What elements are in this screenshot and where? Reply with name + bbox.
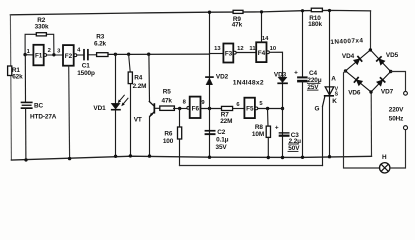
node B <box>127 53 130 56</box>
resistor R7 <box>220 106 244 125</box>
node: C3 ground <box>281 156 284 159</box>
resistor R8 <box>252 109 271 158</box>
svg-text:F6: F6 <box>192 106 200 113</box>
capacitor C4 <box>294 11 322 158</box>
svg-text:H: H <box>382 154 387 161</box>
node: piezo ground <box>24 158 27 161</box>
transistor VT <box>134 54 160 156</box>
node: thyristor cathode ground <box>328 155 331 158</box>
resistor R5 <box>160 88 187 110</box>
wire: F2 pin 7 to ground <box>68 66 71 159</box>
wire: lamp to mains terminal <box>390 130 406 168</box>
svg-text:22M: 22M <box>220 118 232 125</box>
svg-text:1N4I48x2: 1N4I48x2 <box>233 80 264 87</box>
svg-text:F3: F3 <box>225 51 233 58</box>
svg-text:35V: 35V <box>216 144 228 151</box>
wire: bottom ground rail <box>11 156 371 160</box>
diode VD7 <box>377 78 385 86</box>
svg-text:G: G <box>315 105 320 112</box>
svg-text:R6: R6 <box>164 130 173 137</box>
svg-text:220V: 220V <box>389 106 404 113</box>
svg-text:R5: R5 <box>163 88 172 95</box>
node: pin 13 rail junction <box>208 11 211 14</box>
diode VD6 <box>354 78 362 86</box>
diode VD5 <box>377 57 385 65</box>
inverter F4 <box>256 42 269 62</box>
terminal: mains upper <box>404 91 408 95</box>
wire: F4 pin 14 to rail <box>261 12 263 42</box>
wire: bridge bottom to ground rail <box>370 92 372 156</box>
diode VD3 <box>274 71 287 83</box>
svg-text:F4: F4 <box>258 50 266 57</box>
wire: F1 out to F2 in <box>47 54 63 56</box>
svg-text:47k: 47k <box>162 98 173 105</box>
svg-text:S: S <box>335 92 339 98</box>
node: bridge right vertex <box>389 70 392 73</box>
inverter F2 <box>63 45 77 66</box>
inverter F1 <box>33 45 46 66</box>
inverter F6 <box>187 97 201 118</box>
svg-text:14: 14 <box>262 36 269 42</box>
svg-text:VD1: VD1 <box>93 105 106 112</box>
terminal: mains lower <box>404 126 408 130</box>
inverter F3 <box>223 44 236 63</box>
node: C4 rail junction <box>301 9 304 12</box>
node: VT emitter ground <box>148 154 151 157</box>
svg-text:10: 10 <box>270 46 276 52</box>
wire: F6 pin 9 to middle column <box>201 108 222 110</box>
svg-text:VD2: VD2 <box>216 74 229 81</box>
node: middle column top <box>208 11 211 14</box>
svg-text:10M: 10M <box>252 131 264 138</box>
svg-text:VD7: VD7 <box>381 88 394 95</box>
wire: mains terminal to bridge right vertex <box>391 72 406 92</box>
node A <box>114 53 117 56</box>
svg-text:R8: R8 <box>255 124 264 131</box>
wire: top rail <box>10 10 370 14</box>
resistor R10 <box>308 8 322 28</box>
svg-text:R4: R4 <box>134 74 143 81</box>
wire: pin 1 lead <box>25 54 33 56</box>
svg-text:47k: 47k <box>232 21 243 28</box>
svg-text:C2: C2 <box>217 129 226 136</box>
node: bridge bottom vertex <box>369 90 372 93</box>
node: pin 14 rail junction <box>260 10 263 13</box>
node: C4 ground <box>301 156 304 159</box>
wire: gate rail <box>180 165 323 167</box>
rectifier bridge VD4-VD7 <box>330 37 398 96</box>
svg-text:VD5: VD5 <box>386 52 399 59</box>
svg-text:11: 11 <box>249 46 256 52</box>
wire: middle column <box>209 12 211 157</box>
svg-text:100: 100 <box>163 138 174 145</box>
node C <box>147 53 150 56</box>
svg-text:A: A <box>331 76 336 83</box>
node: R8 junction <box>266 107 269 110</box>
diode VD4 <box>354 57 362 65</box>
inverter F5 <box>244 98 257 118</box>
wire: bridge left vertex to lamp <box>344 71 380 168</box>
wire: F5 out to VD3 column <box>258 108 283 110</box>
svg-text:330k: 330k <box>35 23 49 30</box>
svg-text:62k: 62k <box>12 73 23 80</box>
node: R4 ground <box>129 154 132 157</box>
node: VD3 row3 junction <box>281 107 284 110</box>
svg-text:13: 13 <box>214 46 221 52</box>
resistor R3 <box>94 34 108 57</box>
wire: F4 out down VD3 column <box>269 52 282 157</box>
node: bridge top vertex <box>369 48 372 51</box>
node: R8 ground <box>267 156 270 159</box>
svg-text:HTD-27A: HTD-27A <box>30 114 57 121</box>
svg-text:2: 2 <box>48 48 51 54</box>
resistor R2 <box>25 17 54 55</box>
diode VD2 <box>206 74 229 85</box>
svg-text:6.2k: 6.2k <box>94 41 107 48</box>
svg-text:50Hz: 50Hz <box>389 116 404 123</box>
resistor R1 <box>8 66 24 80</box>
node: gate drive node <box>178 107 181 110</box>
wire: F3 out to F4 in <box>236 52 256 54</box>
svg-text:VD6: VD6 <box>348 90 361 97</box>
svg-text:F5: F5 <box>246 106 254 113</box>
resistor R9 <box>232 10 243 28</box>
resistor R6 <box>163 109 182 166</box>
svg-text:+: + <box>275 125 279 132</box>
svg-text:+: + <box>294 69 298 76</box>
capacitor C1 <box>77 50 97 77</box>
svg-text:12: 12 <box>237 46 243 52</box>
node: bridge left vertex <box>344 69 347 72</box>
svg-text:K: K <box>332 98 337 105</box>
wire: pin 13 stub <box>210 53 224 55</box>
svg-text:BC: BC <box>34 103 44 110</box>
capacitor C3 <box>275 125 301 153</box>
photodiode VD1 <box>93 54 128 156</box>
piezo receiver BC <box>21 55 57 160</box>
node: oscillator node <box>52 53 55 56</box>
node: VD1 ground <box>114 155 117 158</box>
svg-text:C1: C1 <box>82 63 91 70</box>
svg-text:0.1μ: 0.1μ <box>216 137 229 144</box>
wire: main row to middle column <box>108 53 210 55</box>
svg-text:F1: F1 <box>35 53 43 60</box>
svg-text:VD4: VD4 <box>342 53 355 60</box>
wire: rail to bridge top <box>370 11 372 50</box>
lamp H <box>380 154 390 173</box>
svg-text:VD3: VD3 <box>274 71 287 78</box>
capacitor C2 <box>205 129 229 151</box>
svg-text:VT: VT <box>134 116 142 123</box>
svg-text:2.2M: 2.2M <box>133 83 147 90</box>
resistor R4 <box>128 54 146 156</box>
node: middle column row3 <box>208 107 211 110</box>
node: F1 input junction <box>23 53 26 56</box>
thyristor VS <box>315 11 339 166</box>
svg-text:180k: 180k <box>308 21 322 28</box>
node: thyristor anode rail junction <box>328 9 331 12</box>
svg-text:F2: F2 <box>65 53 73 60</box>
node: middle column ground <box>208 156 211 159</box>
svg-text:1500p: 1500p <box>77 70 95 77</box>
node: F2 pin 7 ground <box>68 157 71 160</box>
wire: left border <box>10 15 11 160</box>
